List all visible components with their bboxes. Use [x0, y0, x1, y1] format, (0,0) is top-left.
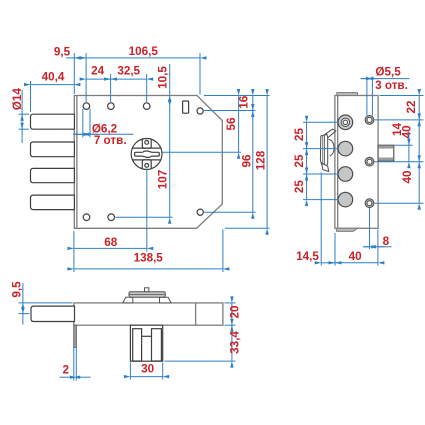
- dimension 25 a line: [306, 122, 308, 148]
- svg-text:25: 25: [293, 154, 306, 168]
- dimension 56 line: [238, 96, 240, 153]
- svg-text:Ø14: Ø14: [11, 88, 24, 111]
- extension line side left edge down: [334, 233, 336, 266]
- side hole 2: [365, 157, 374, 166]
- svg-text:128: 128: [255, 150, 268, 170]
- extension line hole top right: [204, 110, 256, 112]
- dimension 25 c line: [306, 174, 308, 200]
- screw hole top 3: [143, 103, 150, 110]
- keyhole cylinder mechanism: [131, 139, 162, 170]
- extension line hole column down: [369, 208, 371, 249]
- bolt 4: [31, 195, 75, 210]
- extension lines faceplate strip down: [74, 347, 77, 380]
- dimension 40,4 line: [31, 81, 74, 112]
- screw hole top 1: [83, 103, 90, 110]
- slot opening top right: [183, 101, 189, 113]
- extension line side right edge down: [377, 230, 379, 266]
- dimension 20 line: [231, 303, 233, 325]
- dimension 25 b line: [306, 149, 308, 174]
- svg-text:40: 40: [349, 250, 363, 263]
- dimension 40 upper line: [418, 120, 420, 162]
- dimension 107 line: [169, 106, 171, 217]
- side hole 1: [365, 116, 374, 125]
- screw hole bottom 2: [108, 214, 115, 221]
- extension line tail block bottom right: [165, 360, 236, 362]
- svg-text:22: 22: [405, 100, 418, 114]
- dimension 40 lower line: [418, 162, 420, 204]
- svg-text:30: 30: [141, 362, 155, 375]
- dimension 10,5 line: [169, 64, 171, 96]
- extension line hole column 3: [146, 74, 148, 102]
- extension line hole bottom right: [204, 211, 256, 213]
- bolt tail block: [130, 325, 162, 361]
- extension line top edge right: [204, 95, 270, 97]
- extension line bar top left: [19, 302, 73, 304]
- extension lines tail block down: [130, 363, 162, 380]
- bolt 3: [31, 168, 75, 182]
- dimension 16 line: [252, 96, 254, 111]
- extension lines Ø5,5 hole edges: [367, 77, 373, 116]
- svg-text:10,5: 10,5: [157, 66, 170, 89]
- svg-text:56: 56: [225, 117, 238, 131]
- svg-text:33,4: 33,4: [228, 331, 241, 354]
- extension line bar top right: [225, 302, 236, 304]
- extension line hole column 1: [85, 53, 87, 102]
- dimension 14,5 line: [321, 262, 335, 264]
- extension line body left edge top: [73, 53, 75, 94]
- latch protrusion: [378, 145, 394, 161]
- svg-text:96: 96: [240, 154, 253, 168]
- svg-text:3 отв.: 3 отв.: [375, 79, 408, 92]
- faceplate inner edge line: [76, 96, 78, 229]
- lock body outline: [74, 96, 222, 229]
- svg-text:16: 16: [238, 95, 251, 109]
- dimension 9,5 line: [66, 57, 86, 59]
- extension lines bolt circles left: [303, 122, 339, 199]
- svg-text:25: 25: [293, 180, 306, 194]
- dimension 32,5 line: [111, 78, 147, 80]
- dimension 138,5 line: [74, 268, 223, 270]
- svg-text:40,4: 40,4: [42, 71, 65, 84]
- bottom mounting tab: [337, 228, 358, 231]
- dimension Ø14 lines: [19, 90, 30, 143]
- svg-text:9,5: 9,5: [11, 281, 24, 298]
- screw hole bottom right: [197, 209, 203, 215]
- svg-text:68: 68: [104, 236, 118, 249]
- extension line side hole 1 right: [375, 119, 424, 121]
- dimension Ø5,5 line: [361, 78, 410, 80]
- dimension 30 line: [130, 376, 162, 378]
- bolt face circle 4: [338, 192, 353, 207]
- bolt face circle 2: [338, 141, 353, 156]
- faceplate edge strip: [74, 325, 77, 347]
- dimension 128 line: [266, 96, 268, 229]
- locking lever bracket: [320, 129, 335, 171]
- dimension 68 line: [74, 247, 147, 249]
- extension line hole row bottom: [115, 216, 172, 218]
- bolt face circle 1: [338, 115, 353, 130]
- svg-text:20: 20: [228, 305, 241, 319]
- extension line chamfer corner: [199, 53, 201, 95]
- svg-text:7 отв.: 7 отв.: [94, 134, 127, 147]
- dimension 14 line: [408, 132, 410, 162]
- svg-text:25: 25: [293, 128, 306, 142]
- svg-text:40: 40: [401, 170, 414, 184]
- svg-text:8: 8: [383, 235, 390, 248]
- bottom body bar: [74, 303, 223, 325]
- svg-text:14,5: 14,5: [296, 250, 319, 263]
- dimension Ø6,2 leader lines: [73, 109, 134, 138]
- dimension 8 line: [363, 246, 392, 248]
- screw hole top right: [197, 108, 203, 114]
- cylinder cam knob: [123, 288, 171, 303]
- extension line cylinder column down: [146, 170, 148, 252]
- extension line latch top: [395, 144, 413, 146]
- bolt face circle 3: [338, 167, 353, 182]
- svg-text:106,5: 106,5: [129, 45, 159, 58]
- extension line side hole 2 right: [375, 161, 424, 163]
- dimension 96 line: [252, 111, 254, 213]
- svg-text:2: 2: [62, 364, 69, 377]
- extension line bar bottom right: [225, 324, 236, 326]
- extension line cylinder center: [163, 151, 242, 153]
- extension line hole column 2: [110, 74, 112, 102]
- extension line bolt stub center: [19, 313, 30, 315]
- bolt stub: [31, 306, 75, 321]
- extension line bottom edge right: [225, 227, 270, 229]
- side hole 3: [365, 199, 374, 208]
- extension line side hole 3 right: [375, 202, 424, 204]
- svg-text:24: 24: [91, 65, 105, 78]
- dimension 24 line: [86, 78, 111, 80]
- svg-text:32,5: 32,5: [117, 65, 140, 78]
- screw hole top 2: [108, 103, 115, 110]
- dimension 106,5 line: [86, 57, 200, 59]
- dimension 22 line: [418, 96, 420, 120]
- top mounting tab: [337, 93, 358, 96]
- svg-text:138,5: 138,5: [134, 252, 164, 265]
- dimension 2 lines: [60, 376, 91, 378]
- bolt 2: [31, 142, 75, 157]
- svg-text:9,5: 9,5: [54, 46, 71, 59]
- extension line side top edge right: [380, 95, 424, 97]
- dimension 33,4 line: [231, 325, 233, 361]
- svg-text:107: 107: [156, 170, 169, 190]
- screw hole bottom 1: [83, 214, 90, 221]
- extension line body right edge down: [222, 230, 224, 273]
- extension line body left edge bottom: [73, 231, 75, 272]
- dimension 40 bottom line: [335, 262, 378, 264]
- svg-text:Ø5,5: Ø5,5: [375, 65, 401, 78]
- extension line bracket tip down: [320, 173, 322, 266]
- bolt 1: [31, 114, 75, 129]
- dimension 9,5 bottom lines: [22, 283, 24, 325]
- svg-text:14: 14: [391, 123, 404, 137]
- side body outline: [335, 96, 378, 229]
